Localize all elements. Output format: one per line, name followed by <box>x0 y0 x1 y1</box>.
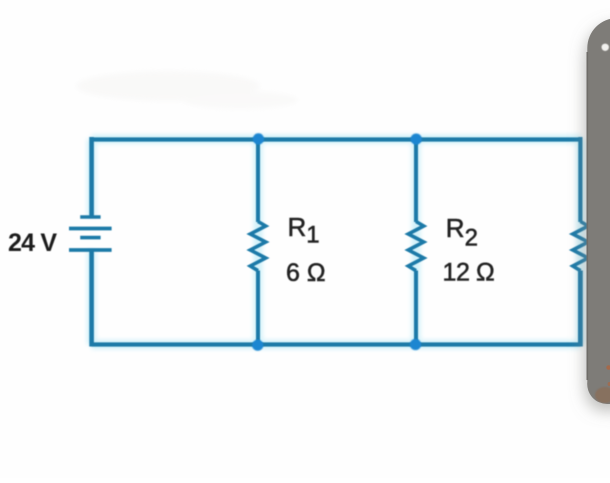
junction node: R1 top <box>253 133 264 144</box>
junction node: R2 bottom <box>410 339 421 350</box>
wire: R2 branch bottom lead <box>414 271 418 345</box>
wire: R1 branch top lead <box>256 139 260 222</box>
resistor R2 zigzag <box>408 222 423 271</box>
white dot on gray panel <box>602 44 609 51</box>
resistor R3 zigzag (partially hidden) <box>573 222 588 271</box>
label: R1 value 6 Ω <box>286 259 326 287</box>
orange speck 1 on gray panel <box>606 365 610 370</box>
wire: top bus <box>92 137 582 141</box>
gray side panel overlay (right edge) <box>587 18 610 404</box>
wire: R2 branch top lead <box>414 139 418 222</box>
wire: right branch bottom lead <box>578 271 583 347</box>
orange speck 2 on gray panel <box>608 382 610 386</box>
decorative cyan halo under all wires <box>92 139 582 345</box>
label: R2 designator <box>446 213 478 251</box>
label: R2 value 12 Ω <box>443 259 495 287</box>
wire: R1 branch bottom lead <box>256 271 260 345</box>
wire: battery top lead <box>89 137 94 217</box>
battery B1 24 V plates <box>69 217 112 250</box>
junction node: R2 top <box>411 134 422 145</box>
svg-text:24 V: 24 V <box>8 229 57 257</box>
label: 24 V (battery value) <box>8 229 57 257</box>
junction node: R1 bottom <box>252 340 263 351</box>
resistor R1 zigzag <box>250 222 265 271</box>
svg-text:12 Ω: 12 Ω <box>443 259 495 287</box>
wire: bottom bus <box>92 342 581 346</box>
wire: right branch top lead (third resistor) <box>578 137 582 222</box>
decorative brownish patch at panel bottom corner <box>595 387 610 403</box>
wire: battery bottom lead <box>89 250 94 347</box>
decorative faint smudge above circuit <box>76 71 298 109</box>
label: R1 designator <box>288 212 320 249</box>
svg-text:6 Ω: 6 Ω <box>286 259 326 287</box>
